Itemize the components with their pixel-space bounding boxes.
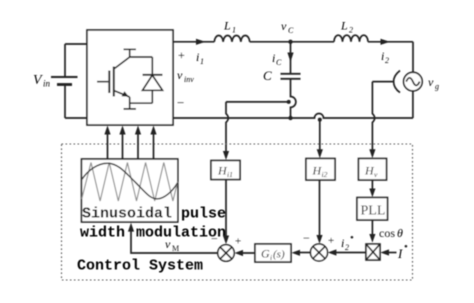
svg-text:g: g — [435, 82, 439, 91]
wire I* to multiplier — [383, 252, 397, 254]
diode D1 triangle — [143, 75, 163, 90]
block H_v — [359, 159, 387, 181]
modulating sine wave — [82, 163, 178, 199]
wire summer2 to Gi — [295, 252, 311, 254]
node capacitor-rail dot — [288, 116, 292, 120]
summer1 — [218, 245, 234, 261]
inductor L1 — [214, 36, 249, 42]
IGBT Q1 emitter arrow — [122, 91, 129, 96]
wire PLL to multiplier — [371, 220, 373, 240]
capacitor lower wire with hop — [291, 79, 296, 118]
wire L2 to corner — [368, 41, 413, 43]
wire corner down to vg — [412, 42, 414, 73]
multiplier block — [366, 244, 380, 260]
wire vg bottom — [412, 91, 414, 118]
IGBT Q1 gate bar — [108, 71, 110, 94]
svg-text:PLL: PLL — [361, 204, 386, 219]
SPWM gate drive arrows to inverter — [107, 128, 109, 159]
wire multiplier to summer2 — [331, 252, 367, 254]
svg-text:i: i — [341, 236, 344, 250]
gate arrow 2 — [122, 128, 124, 159]
arrow i1 — [196, 39, 206, 45]
svg-text:Sinusoidal pulse: Sinusoidal pulse — [82, 206, 226, 223]
IGBT Q1 emitter stub — [124, 97, 137, 109]
IGBT Q1 emitter diagonal — [114, 91, 130, 98]
gate arrow 3 — [137, 128, 139, 159]
wire tap to H_i2 — [319, 120, 321, 154]
svg-text:cos: cos — [379, 226, 395, 240]
wire v_M feedback to SPWM — [131, 227, 218, 254]
svg-text:2: 2 — [349, 26, 353, 35]
svg-text:Control System: Control System — [77, 258, 203, 275]
IGBT Q1 collector diagonal — [115, 57, 130, 69]
svg-text:i: i — [196, 50, 199, 64]
svg-text:−: − — [177, 95, 184, 110]
svg-text:v: v — [177, 68, 183, 82]
node v_c dot — [288, 40, 292, 44]
inductor L2 — [334, 35, 368, 42]
svg-text:L: L — [340, 19, 348, 33]
svg-text:−: − — [303, 231, 310, 245]
svg-text:+: + — [328, 235, 334, 247]
block PLL — [357, 198, 388, 221]
wire battery to inverter bottom — [65, 117, 87, 119]
diode D1 cathode bar — [143, 74, 163, 76]
arrow into H_v — [369, 149, 375, 158]
control system dashed box — [62, 144, 413, 280]
wire battery vertical top — [64, 44, 66, 76]
AC source sine — [406, 78, 419, 86]
svg-text:inv: inv — [184, 75, 194, 84]
wire sense riser to H_i1 with hop over rail — [226, 102, 228, 156]
IGBT Q1 gate lead — [97, 81, 108, 83]
svg-text:v: v — [165, 237, 171, 251]
wire vg sense riser with hop over rail — [372, 82, 374, 154]
svg-text:V: V — [33, 73, 43, 88]
wire capacitor-current sense horizontal — [226, 101, 289, 103]
triangular carrier wave — [82, 163, 178, 202]
wire inverter output top — [173, 41, 214, 43]
arrow i_C — [287, 53, 293, 63]
svg-text:i: i — [381, 49, 384, 63]
sense tap dot on cap branch — [287, 100, 291, 104]
svg-text:C: C — [288, 26, 294, 35]
svg-text:G: G — [261, 247, 270, 261]
svg-text:(s): (s) — [273, 249, 285, 261]
H_i2 tap dot — [318, 118, 322, 122]
svg-text:θ: θ — [397, 226, 403, 240]
AC source v_g circle — [404, 72, 423, 91]
SPWM block box — [82, 159, 178, 222]
svg-text:in: in — [43, 79, 51, 89]
arrow into H_i2 — [317, 149, 323, 158]
svg-text:•: • — [350, 232, 354, 244]
bottom rail with bump — [173, 114, 413, 118]
block H_i2 — [306, 159, 335, 181]
svg-text:i1: i1 — [227, 170, 233, 179]
wire Gi to summer1 — [238, 252, 256, 254]
block Gi(s) — [255, 244, 291, 262]
wire L1 to L2 — [250, 41, 334, 43]
svg-text:M: M — [172, 244, 179, 253]
svg-text:v: v — [428, 75, 434, 89]
wire IGBT top to diode — [130, 56, 153, 58]
svg-text:C: C — [263, 68, 272, 83]
summer2 — [311, 244, 328, 261]
svg-text:L: L — [223, 19, 231, 33]
svg-text:I: I — [397, 246, 403, 261]
wire diode cathode vertical — [151, 57, 153, 75]
gate arrow 4 — [153, 128, 155, 159]
vg sense horizontal wire — [372, 81, 394, 83]
wire battery vertical bottom — [64, 86, 66, 119]
svg-text:i: i — [270, 253, 272, 262]
battery top plate — [51, 76, 78, 78]
wire diode anode vertical — [151, 90, 153, 103]
svg-text:i2: i2 — [322, 170, 328, 179]
IGBT Q1 collector stub — [124, 49, 137, 57]
capacitor branch wire — [290, 42, 292, 74]
svg-text:−: − — [211, 232, 218, 246]
battery bottom plate — [57, 83, 72, 86]
svg-text:1: 1 — [200, 57, 204, 66]
wire H_i2 to summer2 — [319, 180, 321, 241]
inverter box — [87, 30, 173, 125]
wire IGBT bottom to diode — [130, 102, 153, 104]
svg-text:C: C — [276, 58, 282, 67]
svg-text:1: 1 — [232, 26, 236, 35]
block H_i1 — [211, 161, 240, 180]
svg-text:2: 2 — [385, 56, 389, 65]
wire H_i1 to summer1 — [225, 180, 227, 242]
svg-text:+: + — [235, 236, 241, 248]
wire battery to inverter top — [65, 43, 87, 45]
svg-text:2: 2 — [345, 243, 349, 252]
svg-text:width: width — [80, 225, 125, 242]
wire H_v to PLL — [371, 180, 373, 194]
arrow into H_i1 — [223, 151, 229, 160]
svg-text:+: + — [178, 48, 185, 62]
arc at vg source left — [394, 71, 400, 93]
arrow i2 — [381, 39, 391, 45]
svg-text:•: • — [404, 241, 408, 253]
IGBT Q1 body bar — [113, 67, 115, 97]
svg-text:v: v — [281, 19, 287, 33]
svg-text:i: i — [272, 51, 275, 65]
capacitor C plates — [281, 74, 301, 79]
